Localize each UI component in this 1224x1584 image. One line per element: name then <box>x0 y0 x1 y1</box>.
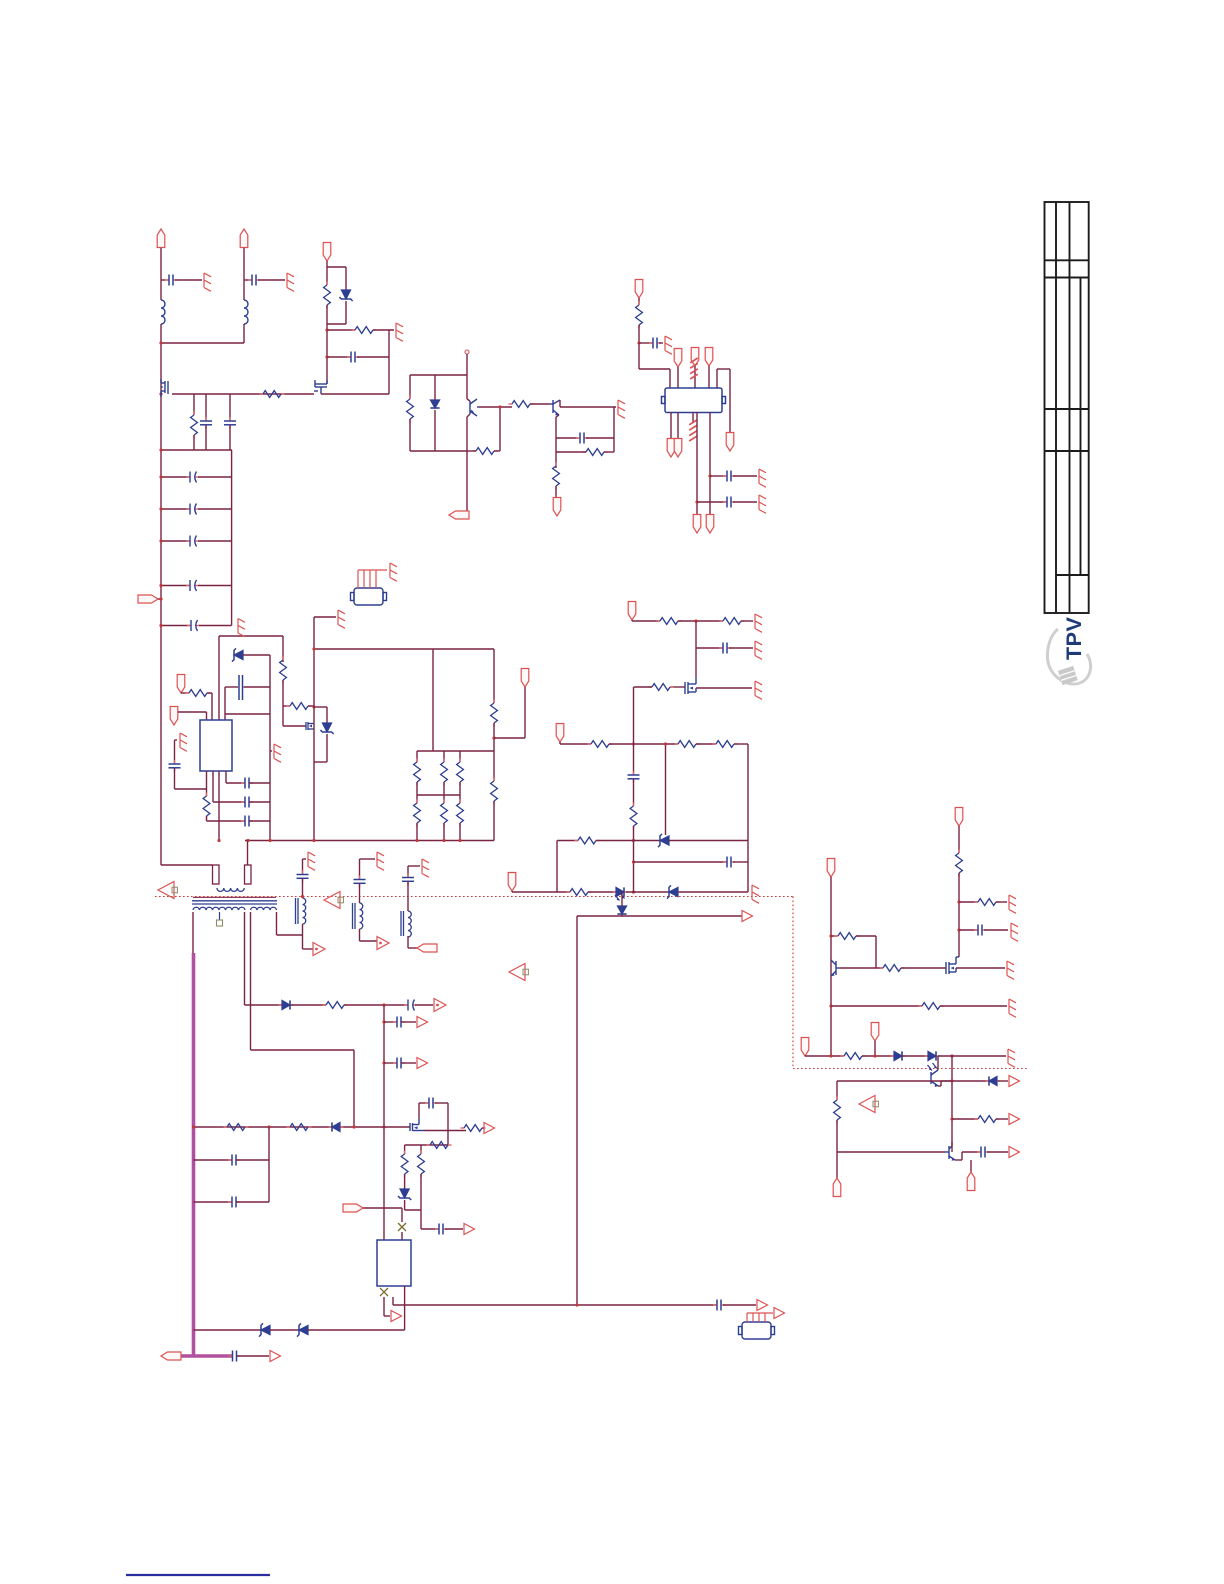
wire <box>494 737 525 739</box>
resistor R29 <box>956 850 963 877</box>
transistor Q5 (NMOS) <box>685 677 696 694</box>
resistor R14 <box>287 703 312 710</box>
capacitor C6 <box>576 433 588 444</box>
wire <box>696 743 716 745</box>
capacitor C26 <box>425 1098 437 1109</box>
wire <box>560 406 616 408</box>
resistor R11 <box>186 690 211 697</box>
wire <box>326 261 328 285</box>
IC U1 (PWM controller) <box>200 720 232 771</box>
wire <box>174 740 176 763</box>
connector CN17 <box>138 595 158 603</box>
wire <box>559 742 561 744</box>
wire <box>383 1297 385 1316</box>
resistor R34 <box>841 1053 866 1060</box>
wire <box>408 947 417 949</box>
transformer T1 primary pin <box>213 865 220 884</box>
wire <box>237 1355 269 1357</box>
transformer T4 winding <box>408 911 411 937</box>
wire <box>345 301 347 324</box>
wire <box>207 692 212 694</box>
wire <box>175 788 207 790</box>
resistor R24 <box>675 741 700 748</box>
wire <box>175 739 178 741</box>
wire <box>631 620 633 621</box>
connector CN6 <box>635 280 643 299</box>
wire <box>277 934 303 936</box>
wire <box>407 936 409 948</box>
wire <box>401 1208 403 1222</box>
wire <box>198 508 232 510</box>
IC U3 <box>662 388 726 413</box>
transformer T4 core <box>400 911 402 936</box>
wire <box>875 936 877 968</box>
wire <box>249 820 270 822</box>
transformer T1 primary pin <box>245 865 252 884</box>
wire <box>206 771 208 796</box>
ground <box>1007 961 1014 979</box>
wire <box>434 375 436 400</box>
node (open pin) <box>465 350 469 354</box>
wire <box>250 912 252 1050</box>
transistor Q7 (NPN) <box>831 960 840 976</box>
resistor R4 <box>352 327 377 334</box>
wire <box>161 342 244 344</box>
ground <box>390 563 397 581</box>
resistor R15a <box>414 759 421 786</box>
wire <box>556 415 559 417</box>
wire <box>199 625 232 627</box>
transformer T1 tap mark <box>219 912 221 920</box>
capacitor T2c <box>297 871 309 883</box>
wire <box>639 368 670 370</box>
wire <box>512 891 570 893</box>
wire <box>958 826 960 853</box>
wire <box>419 1102 428 1104</box>
resistor R17a <box>457 759 464 786</box>
wire <box>556 451 586 453</box>
diode D2 <box>430 400 439 408</box>
wire <box>733 475 757 477</box>
wire <box>499 407 501 451</box>
wire <box>613 407 615 452</box>
wire <box>181 692 189 694</box>
wire <box>626 891 669 893</box>
diode D10 <box>986 1076 1001 1085</box>
wire <box>632 620 660 622</box>
connector CN22 <box>508 873 516 892</box>
wire <box>244 279 251 281</box>
resistor R33 <box>919 1003 944 1010</box>
connector CN11 <box>667 439 675 458</box>
capacitor C17 <box>723 857 735 868</box>
resistor R38 <box>224 1124 249 1131</box>
wire <box>604 451 614 453</box>
wire <box>659 342 663 344</box>
capacitor C18 <box>974 925 986 936</box>
wire <box>961 1152 963 1160</box>
wire <box>984 929 1008 931</box>
wire <box>678 620 723 622</box>
transformer T3 core <box>352 903 354 929</box>
wire <box>482 1127 484 1129</box>
wire <box>709 412 711 515</box>
wire <box>282 680 284 726</box>
wire <box>229 394 231 420</box>
ground <box>755 641 762 659</box>
zener D14 <box>259 1323 270 1336</box>
wire <box>447 1103 449 1145</box>
resistor R20 <box>657 618 682 625</box>
wire <box>243 654 270 656</box>
wire <box>831 935 838 937</box>
capacitor C27 <box>435 1224 447 1235</box>
wire <box>357 356 389 358</box>
wire <box>556 841 558 893</box>
ground <box>204 273 211 291</box>
capacitor C11 <box>169 760 181 772</box>
wire <box>432 649 434 751</box>
wire <box>291 1004 326 1006</box>
wire <box>459 751 461 762</box>
wire <box>639 342 652 344</box>
wire <box>479 406 512 408</box>
wire <box>407 866 409 877</box>
resistor R31 <box>835 933 860 940</box>
wire <box>410 450 467 452</box>
wire <box>466 375 468 399</box>
capacitor CY2 <box>248 275 260 286</box>
diode D11 <box>279 1000 294 1009</box>
wire <box>344 1004 407 1006</box>
capacitor CE2 <box>186 504 199 515</box>
wire <box>901 967 946 969</box>
wire <box>621 892 623 906</box>
capacitor C25 <box>228 1197 240 1208</box>
wire <box>243 324 245 343</box>
wire <box>160 324 162 865</box>
resistor R1 <box>260 391 285 398</box>
transistor Q2 (small NMOS) <box>306 722 314 730</box>
wire <box>243 248 245 300</box>
wire <box>314 648 494 650</box>
connector CN2 (AC line 2) <box>240 229 248 248</box>
wire <box>308 705 314 707</box>
resistor R2 <box>191 412 198 439</box>
ground <box>422 859 429 877</box>
wire <box>733 861 748 863</box>
wire <box>229 425 231 450</box>
wire <box>249 782 270 784</box>
resistor R42 <box>401 1151 408 1178</box>
capacitor CE5 <box>187 620 200 631</box>
capacitor CE1 <box>186 472 199 483</box>
wire <box>493 649 495 703</box>
polarized mark (hatch) <box>689 420 697 441</box>
wire <box>435 1102 448 1104</box>
capacitor C19 <box>977 1147 989 1158</box>
opto arrows <box>928 1063 938 1071</box>
capacitor C9 <box>723 497 735 508</box>
wire <box>710 475 726 477</box>
wire <box>236 1159 269 1161</box>
wire <box>393 1304 716 1306</box>
wire <box>696 412 698 515</box>
wire <box>161 625 190 627</box>
connector CN5 <box>553 498 561 517</box>
connector CN1 (AC line 1) <box>157 229 165 248</box>
capacitor C14 <box>241 816 253 827</box>
wire <box>511 891 513 892</box>
wire <box>225 713 270 715</box>
x mark <box>398 1223 406 1231</box>
wire <box>194 1159 233 1161</box>
wire <box>621 914 623 916</box>
wire <box>741 620 753 622</box>
resistor R36 <box>834 1097 841 1124</box>
wire <box>729 369 731 433</box>
wire <box>633 687 635 774</box>
title block table <box>1045 202 1089 613</box>
diode D9 <box>925 1051 940 1060</box>
wire <box>326 707 328 723</box>
wire <box>723 1304 756 1306</box>
ground <box>1009 895 1016 913</box>
wire <box>218 636 220 720</box>
wire <box>696 687 752 689</box>
wire <box>353 1050 355 1127</box>
wire <box>314 616 336 618</box>
wire <box>409 375 411 399</box>
wire <box>996 901 1007 903</box>
capacitor C8 <box>723 471 735 482</box>
wire <box>401 1232 403 1240</box>
wire <box>303 948 314 950</box>
resistor R35 <box>975 1116 1000 1123</box>
resistor R6 <box>509 401 534 408</box>
wire <box>830 877 832 1056</box>
connector CN29 <box>161 1352 181 1360</box>
wire <box>697 501 726 503</box>
wire <box>677 367 679 388</box>
connector CN15 <box>177 675 185 694</box>
capacitor C12 <box>241 778 253 789</box>
wire <box>937 1056 939 1070</box>
wire <box>733 501 757 503</box>
connector CN28 <box>833 1178 841 1197</box>
wire <box>586 437 614 439</box>
wire <box>198 476 232 478</box>
IC U2 (TL431) <box>377 1240 411 1286</box>
wire <box>638 325 640 369</box>
wire <box>856 935 876 937</box>
wire <box>467 414 470 417</box>
wire <box>205 425 207 450</box>
wire <box>874 1041 876 1056</box>
wire <box>373 329 394 331</box>
wire <box>669 369 671 388</box>
wire <box>404 1145 406 1154</box>
wire <box>596 840 660 842</box>
x mark <box>380 1288 388 1296</box>
capacitor C5 <box>347 352 359 363</box>
transistor Q3 (PNP of photocoupler) <box>470 399 479 416</box>
wire <box>938 1085 941 1087</box>
wire <box>695 621 697 677</box>
resistor R17b <box>457 800 464 827</box>
wire <box>837 1151 945 1153</box>
capacitor T4c <box>402 874 414 886</box>
resistor R15b <box>414 800 421 827</box>
wire <box>213 801 245 803</box>
connector CN27 <box>967 1172 975 1191</box>
wire <box>194 1329 262 1331</box>
wire <box>198 540 232 542</box>
wire <box>161 864 213 866</box>
wire <box>416 782 418 803</box>
wire <box>245 840 494 842</box>
transistor Q6 (NMOS) <box>946 957 959 974</box>
wire <box>634 686 653 688</box>
wire <box>836 1120 838 1178</box>
connector CN12 <box>674 439 682 458</box>
wire <box>555 486 557 497</box>
wire <box>692 412 694 423</box>
transistor Q9 (NMOS) <box>410 1118 424 1131</box>
wire <box>249 801 270 803</box>
zener D7 <box>667 885 678 898</box>
wire <box>174 768 176 789</box>
net arrow <box>464 1224 475 1235</box>
wire <box>555 452 557 468</box>
resistor R26 <box>630 803 637 830</box>
wire <box>443 782 445 803</box>
transformer T1 core <box>193 896 276 898</box>
wire <box>245 1004 283 1006</box>
wire <box>902 1055 928 1057</box>
capacitor CE3 <box>186 536 199 547</box>
wire <box>384 1062 397 1064</box>
zener D3 <box>232 648 243 661</box>
wire <box>206 712 208 720</box>
net arrow <box>742 911 753 922</box>
transistor Q4 (NPN) <box>550 400 560 415</box>
wire <box>670 412 672 439</box>
wire <box>244 912 246 1005</box>
wire <box>283 705 290 707</box>
wire <box>211 693 213 720</box>
wire <box>269 655 271 840</box>
wire <box>236 1201 269 1203</box>
wire <box>831 1005 922 1007</box>
wire <box>951 1142 953 1146</box>
wire <box>466 354 468 375</box>
capacitor C23 <box>393 1058 405 1069</box>
connector CN23 <box>955 808 963 827</box>
wire <box>952 1118 978 1120</box>
connector CN7 <box>674 349 682 368</box>
wire <box>161 279 168 281</box>
resistor R21 <box>720 618 745 625</box>
wire <box>282 636 284 662</box>
wire <box>404 1174 406 1189</box>
resistor R28 <box>567 889 592 896</box>
wire <box>193 435 195 450</box>
wire <box>161 508 189 510</box>
resistor R40 <box>461 1125 486 1132</box>
wire <box>226 782 245 784</box>
wire <box>415 1004 433 1006</box>
footer line <box>126 1574 270 1576</box>
resistor R19 <box>491 778 498 805</box>
wire <box>557 840 578 842</box>
wire <box>198 585 232 587</box>
transformer T1 secondary winding 1 <box>193 907 245 910</box>
wire <box>192 912 194 953</box>
ground <box>308 852 315 870</box>
wire <box>987 1151 1008 1153</box>
wire <box>321 393 389 395</box>
wire <box>443 823 445 841</box>
ground <box>338 610 345 628</box>
wire <box>258 279 285 281</box>
wire <box>225 686 238 688</box>
wire <box>940 1005 1007 1007</box>
connector CN16 <box>170 707 178 726</box>
wire <box>840 967 883 969</box>
resistor R43 <box>418 1151 425 1178</box>
inductor LF2 <box>244 300 248 324</box>
wire <box>225 771 227 783</box>
wire <box>862 1055 894 1057</box>
ground <box>618 400 625 418</box>
transistor Q1 (NMOS) <box>161 379 168 397</box>
diode D6 <box>613 887 628 896</box>
ground <box>665 336 672 354</box>
diode D8 <box>891 1051 906 1060</box>
wire <box>218 771 220 840</box>
wire <box>998 1080 1008 1082</box>
resistor R13 <box>280 657 287 684</box>
diode D12 <box>329 1122 344 1131</box>
wire <box>836 1081 838 1100</box>
net arrow <box>270 1351 281 1362</box>
node marker <box>859 1096 878 1113</box>
capacitor C10 (tall plates) <box>239 675 243 700</box>
wire <box>327 266 346 268</box>
wire <box>938 1055 1006 1057</box>
wire <box>959 929 977 931</box>
resistor R7 <box>473 448 498 455</box>
wire <box>194 1201 233 1203</box>
wire <box>708 366 710 388</box>
wire <box>665 744 667 835</box>
net arrow <box>484 1123 495 1134</box>
wire <box>633 779 635 806</box>
wire gate bus <box>172 393 314 395</box>
wire <box>576 916 578 1305</box>
wire <box>717 368 730 370</box>
connector CN8 <box>691 348 699 367</box>
wire <box>384 1315 390 1317</box>
wire <box>313 617 315 841</box>
wire <box>268 1127 270 1202</box>
capacitor CY1 <box>165 275 177 286</box>
wire <box>408 865 420 867</box>
jumper block JP2 <box>739 1322 775 1339</box>
wire <box>638 298 640 305</box>
connector CN18 <box>521 669 529 688</box>
